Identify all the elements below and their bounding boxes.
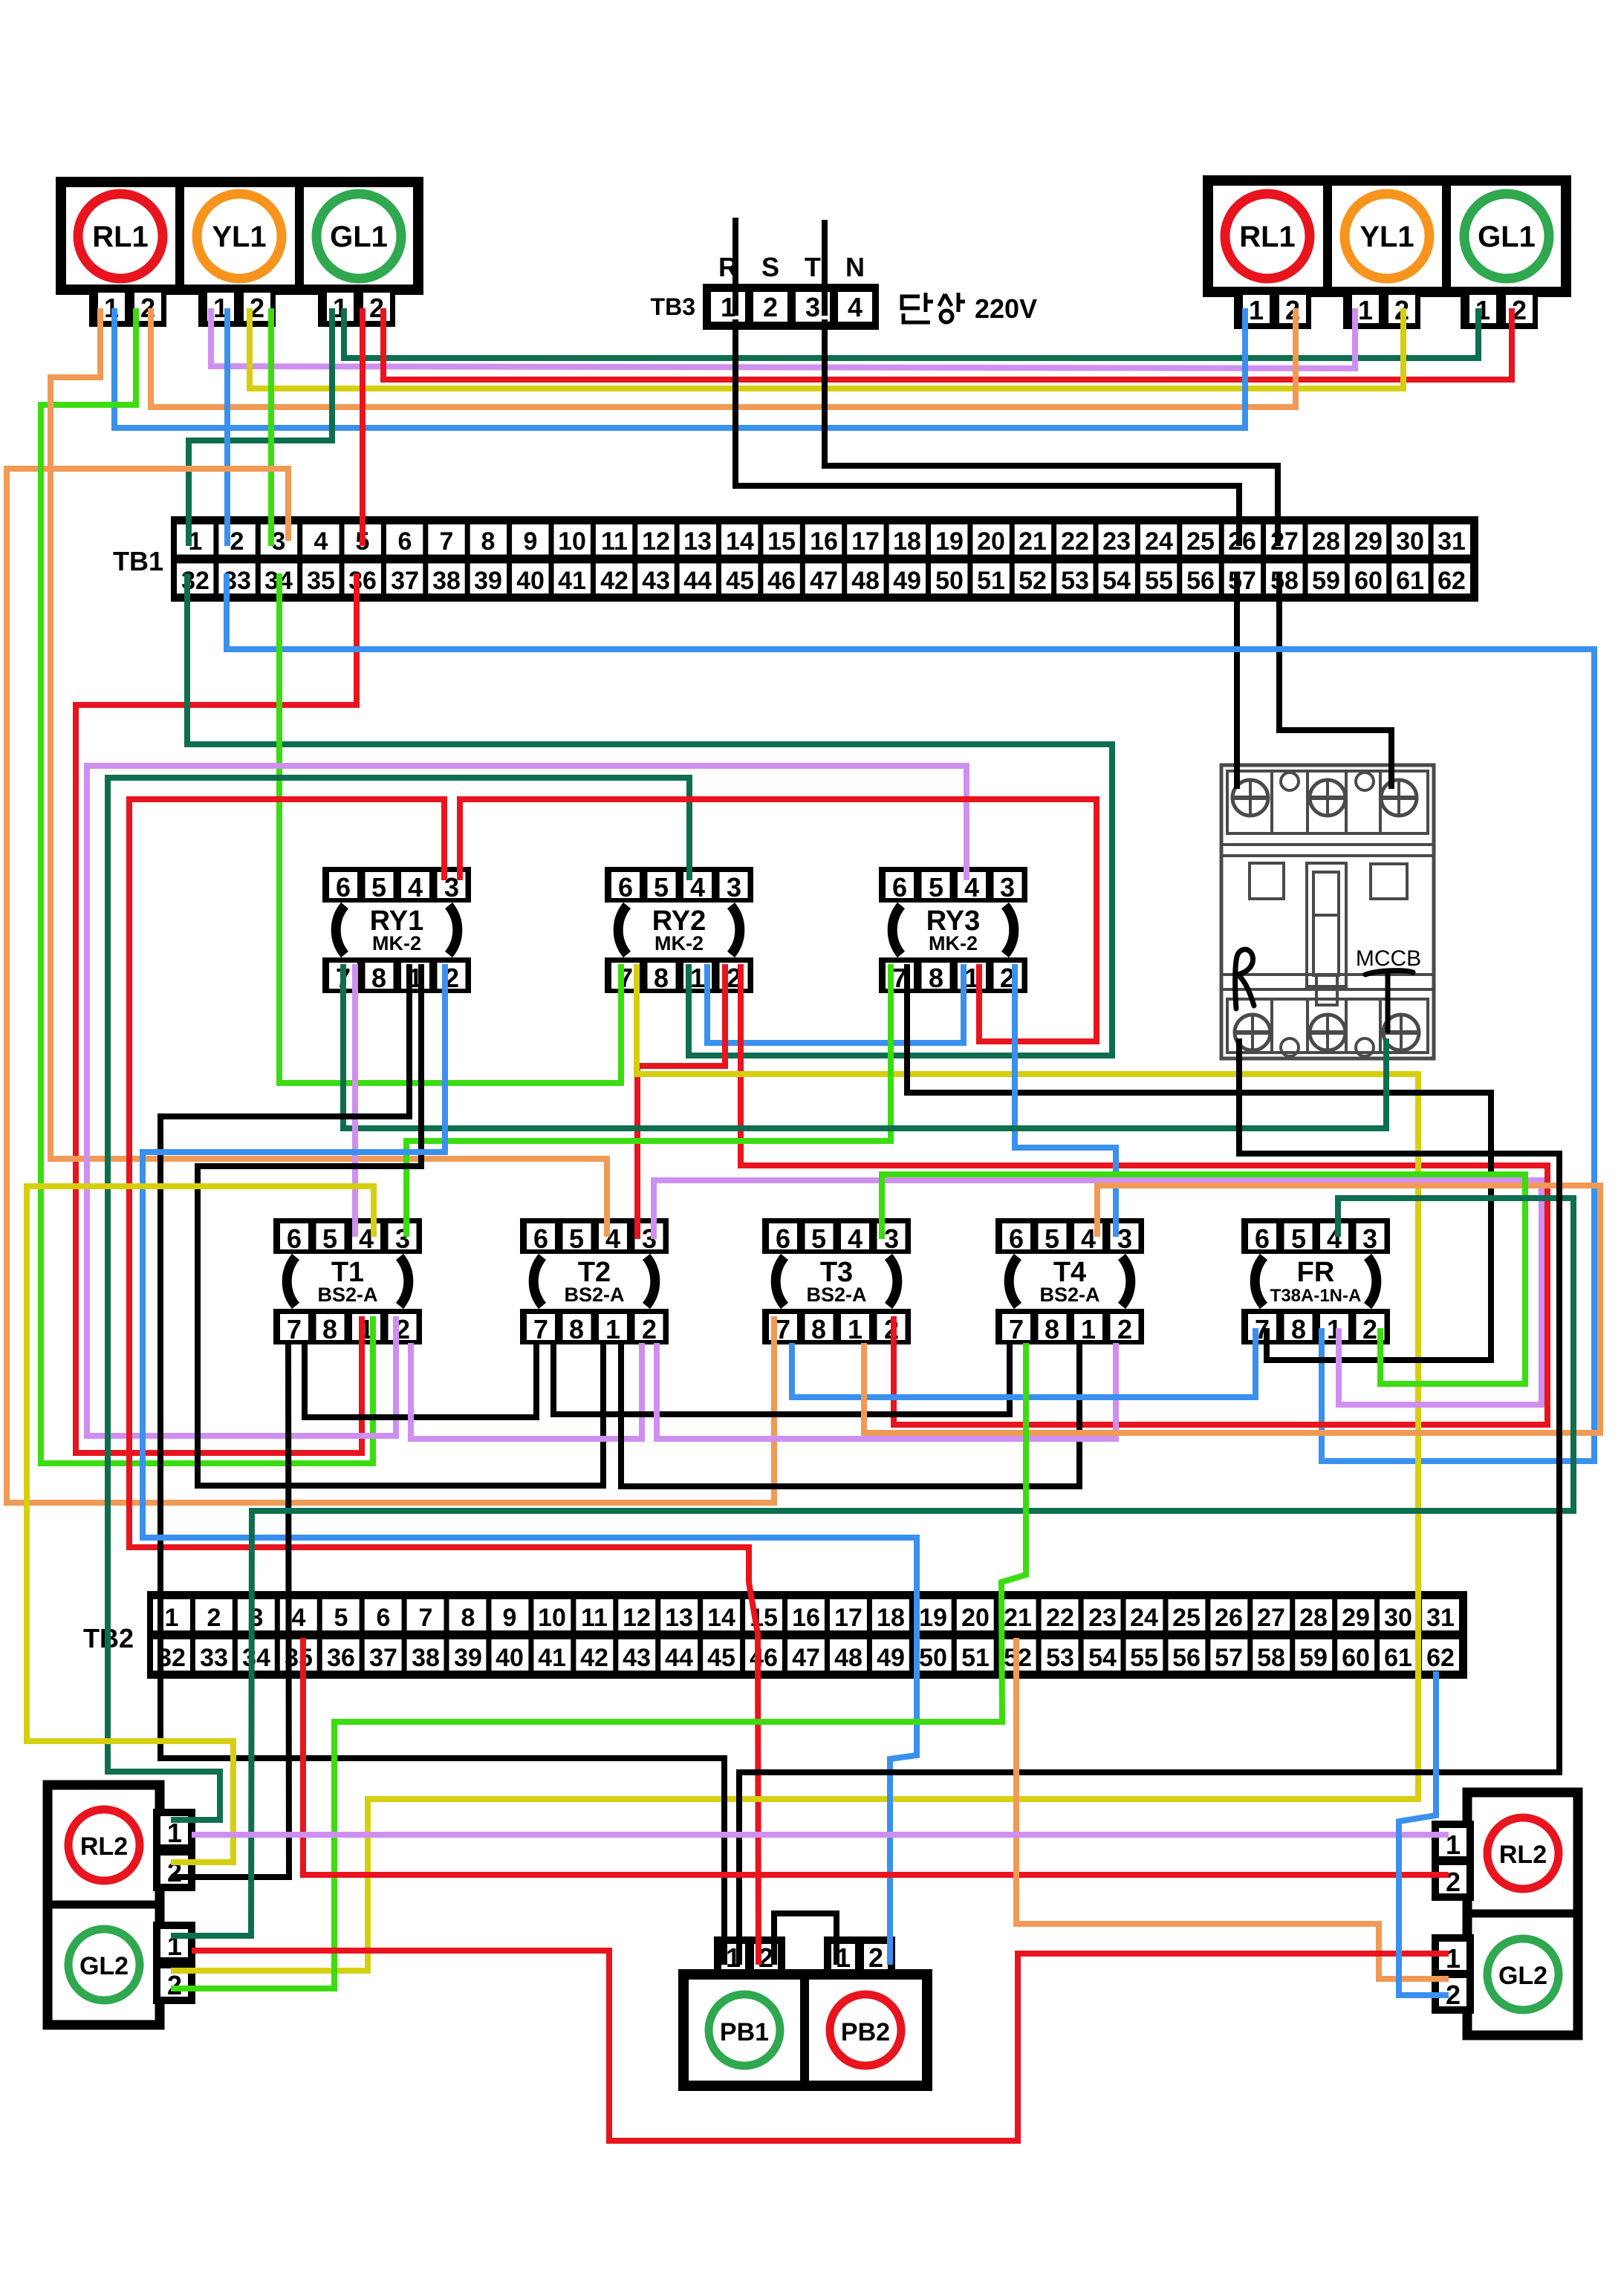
svg-text:8: 8 (461, 1604, 475, 1632)
timer T2 (BS2-A) (520, 1218, 669, 1344)
wire lime TB1.34 to RY2.7 (279, 573, 621, 1083)
svg-text:4: 4 (848, 1223, 863, 1254)
svg-text:42: 42 (580, 1644, 608, 1672)
wire black MCCB bottom to PB1.1 (739, 1038, 1559, 1965)
svg-text:T: T (805, 252, 821, 282)
svg-text:PB2: PB2 (841, 2018, 890, 2046)
wire black RY1.1 to TB2.1/32 to PB1.1 (160, 964, 724, 1965)
svg-text:45: 45 (707, 1644, 735, 1672)
svg-text:10: 10 (538, 1604, 566, 1632)
svg-text:29: 29 (1342, 1604, 1370, 1632)
svg-text:23: 23 (1088, 1604, 1117, 1632)
wire black T1.7 to T2.7 (305, 1343, 536, 1417)
svg-text:14: 14 (726, 527, 754, 556)
wire black jumper PB1.2 to PB2.1 (774, 1913, 837, 1965)
wire red RY1.3 to RY3.1 (460, 799, 1097, 1041)
svg-text:3: 3 (727, 872, 741, 903)
svg-text:19: 19 (935, 527, 964, 556)
svg-text:TB3: TB3 (651, 293, 695, 320)
timer T3 (BS2-A) (762, 1218, 911, 1344)
svg-text:8: 8 (1045, 1314, 1059, 1344)
svg-text:5: 5 (1045, 1223, 1059, 1254)
svg-text:RL2: RL2 (80, 1832, 128, 1861)
svg-text:13: 13 (683, 527, 712, 556)
svg-text:54: 54 (1088, 1644, 1117, 1672)
wire purple YL1L.1 to YL1R.1 (211, 308, 1355, 368)
svg-text:19: 19 (919, 1604, 947, 1632)
wire orange TB1.3 to T3.7 (7, 469, 774, 1503)
svg-text:8: 8 (322, 1314, 337, 1344)
svg-text:48: 48 (851, 567, 880, 595)
svg-text:9: 9 (503, 1604, 517, 1632)
svg-text:7: 7 (776, 1314, 790, 1344)
svg-text:43: 43 (623, 1644, 651, 1672)
wire orange RL1L.2 to RL1R.2 (151, 308, 1296, 407)
wire blue RL1L.1 to RL1R.1 (114, 308, 1245, 428)
timer T1 (BS2-A) (273, 1218, 422, 1344)
wire black TB1.57 to MCCB top-left (1234, 572, 1240, 789)
svg-text:56: 56 (1172, 1644, 1201, 1672)
svg-text:18: 18 (893, 527, 921, 556)
svg-text:MCCB: MCCB (1356, 946, 1421, 971)
svg-text:21: 21 (1004, 1604, 1032, 1632)
wire lime T4.7 to TB2.21/52 to GL2L.2 (171, 1343, 1026, 1988)
svg-text:62: 62 (1426, 1644, 1455, 1672)
svg-text:21: 21 (1019, 527, 1047, 556)
svg-text:55: 55 (1145, 567, 1173, 595)
svg-text:1: 1 (1358, 295, 1373, 325)
svg-text:10: 10 (558, 527, 586, 556)
svg-text:GL1: GL1 (1478, 221, 1536, 253)
svg-text:52: 52 (1019, 567, 1047, 595)
wire purple T2.3 to FR.1 (654, 1180, 1542, 1405)
svg-text:6: 6 (287, 1223, 302, 1254)
svg-text:YL1: YL1 (212, 221, 266, 253)
svg-text:8: 8 (481, 527, 496, 556)
indicator lamp block RL1/YL1/GL1 (top right) (1208, 181, 1566, 329)
svg-text:7: 7 (533, 1314, 548, 1344)
terminal block TB1 (1-62) (113, 516, 1478, 602)
svg-text:61: 61 (1396, 567, 1424, 595)
svg-text:5: 5 (371, 872, 386, 903)
svg-text:6: 6 (1009, 1223, 1024, 1254)
svg-text:45: 45 (726, 567, 754, 595)
svg-text:GL1: GL1 (330, 221, 388, 253)
wire teal RY2.4 to RL2L.1 (108, 778, 689, 1820)
svg-text:12: 12 (623, 1604, 651, 1632)
svg-text:5: 5 (1291, 1223, 1306, 1254)
relay RY2 (MK-2) (605, 867, 753, 993)
svg-text:3: 3 (1000, 872, 1015, 903)
svg-text:44: 44 (683, 567, 712, 595)
svg-text:14: 14 (707, 1604, 735, 1632)
svg-text:2: 2 (763, 292, 778, 322)
svg-text:53: 53 (1061, 567, 1089, 595)
svg-text:56: 56 (1186, 567, 1215, 595)
wire lime RY3.7 to T1.3 (406, 964, 891, 1237)
svg-text:8: 8 (569, 1314, 584, 1344)
svg-text:11: 11 (581, 1604, 608, 1632)
svg-text:59: 59 (1299, 1644, 1328, 1672)
wire teal RY1.7 to MCCB bottom (343, 964, 1386, 1128)
svg-text:50: 50 (935, 567, 964, 595)
wire blue RY3.2 to T4.3 (1015, 964, 1116, 1237)
svg-text:15: 15 (767, 527, 796, 556)
svg-text:1: 1 (1081, 1314, 1096, 1344)
timer T4 (BS2-A) (995, 1218, 1144, 1344)
svg-text:1: 1 (605, 1314, 620, 1344)
svg-text:49: 49 (893, 567, 921, 595)
svg-text:2: 2 (167, 1970, 182, 2000)
svg-text:3: 3 (805, 292, 820, 322)
label 단상 220V (902, 293, 965, 322)
wire orange T3.1 to T4.4 (864, 1186, 1600, 1433)
svg-text:2: 2 (1362, 1314, 1377, 1344)
wire blue RY1.2 to TB2.19/50 to PB2.2 (143, 964, 917, 1965)
svg-text:53: 53 (1046, 1644, 1074, 1672)
svg-text:6: 6 (398, 527, 412, 556)
svg-text:BS2-A: BS2-A (564, 1284, 624, 1306)
svg-text:6: 6 (892, 872, 907, 903)
svg-text:7: 7 (287, 1314, 302, 1344)
wire red RY2.2 to T3.2 (741, 964, 1547, 1425)
svg-text:27: 27 (1257, 1604, 1285, 1632)
wire black RY1.1 to T2.1 (198, 964, 603, 1486)
wire lime T3.3 to FR.2 (882, 1174, 1525, 1384)
svg-text:20: 20 (961, 1604, 990, 1632)
svg-text:44: 44 (665, 1644, 693, 1672)
wire yellow T1.4 to RL2L.2 (27, 1186, 374, 1862)
svg-text:5: 5 (569, 1223, 584, 1254)
svg-text:1: 1 (848, 1314, 863, 1344)
svg-text:31: 31 (1426, 1604, 1455, 1632)
svg-text:2: 2 (642, 1314, 657, 1344)
svg-text:MK-2: MK-2 (372, 932, 421, 955)
svg-text:6: 6 (336, 872, 351, 903)
wire purple T1.2 to T2.2 (411, 1343, 642, 1439)
svg-text:16: 16 (810, 527, 838, 556)
svg-text:3: 3 (1117, 1223, 1132, 1254)
svg-text:43: 43 (642, 567, 670, 595)
wire black stub above TB3.3 (822, 220, 828, 316)
wire red TB1.36 to T1.1 (76, 573, 362, 1453)
svg-text:1: 1 (1249, 295, 1264, 325)
wire red TB2.35 to RL2R.2 (303, 1638, 1449, 1875)
svg-text:7: 7 (1009, 1314, 1024, 1344)
svg-text:220V: 220V (975, 293, 1037, 324)
svg-text:1: 1 (165, 1604, 179, 1632)
svg-text:57: 57 (1215, 1644, 1243, 1672)
wire black TB3.3 to TB1.27 (825, 319, 1278, 546)
wire orange RL1L.1 to T2.4 (51, 308, 607, 1237)
svg-text:58: 58 (1257, 1644, 1285, 1672)
svg-text:50: 50 (919, 1644, 947, 1672)
wire teal FR.4 to TB2.3/34 to GL2L.1 (171, 1198, 1573, 1936)
wire purple RL2L.1 to RL2R.1 (192, 1832, 1449, 1838)
relay RY3 (MK-2) (879, 867, 1027, 993)
svg-text:GL2: GL2 (1498, 1962, 1547, 1990)
svg-text:2: 2 (868, 1942, 883, 1973)
svg-text:49: 49 (877, 1644, 905, 1672)
svg-text:2: 2 (1117, 1314, 1132, 1344)
svg-text:46: 46 (750, 1644, 778, 1672)
push buttons PB1/PB2 (683, 1940, 927, 2086)
svg-text:57: 57 (1228, 567, 1256, 595)
svg-text:BS2-A: BS2-A (1039, 1284, 1099, 1306)
svg-text:GL2: GL2 (79, 1952, 129, 1980)
svg-text:2: 2 (207, 1604, 221, 1632)
svg-text:35: 35 (307, 567, 335, 595)
svg-text:38: 38 (432, 567, 461, 595)
svg-text:RL1: RL1 (92, 221, 149, 253)
wire lime RL1L.2 to T1.1 (41, 308, 373, 1463)
handwritten T (phase mark on MCCB) (1365, 971, 1413, 1031)
wire teal GL1L.1 to GL1R.1 (344, 308, 1478, 358)
svg-text:51: 51 (977, 567, 1005, 595)
svg-text:41: 41 (558, 567, 586, 595)
svg-text:36: 36 (348, 567, 377, 595)
svg-text:59: 59 (1312, 567, 1340, 595)
svg-text:25: 25 (1172, 1604, 1201, 1632)
svg-text:9: 9 (524, 527, 538, 556)
svg-text:41: 41 (538, 1644, 566, 1672)
svg-text:4: 4 (314, 527, 328, 556)
indicator lamp block RL1/YL1/GL1 (top left) (61, 182, 418, 327)
svg-text:S: S (761, 252, 779, 282)
svg-text:20: 20 (977, 527, 1005, 556)
svg-text:28: 28 (1312, 527, 1340, 556)
svg-text:34: 34 (242, 1644, 270, 1672)
svg-text:39: 39 (454, 1644, 482, 1672)
svg-text:18: 18 (877, 1604, 905, 1632)
wire purple T2.2 to T4.2 (657, 1343, 1116, 1439)
svg-text:4: 4 (292, 1604, 306, 1632)
flicker relay FR (T38A-1N-A) (1241, 1218, 1390, 1344)
wire red GL1L.2 to GL1R.2 (383, 308, 1512, 380)
svg-text:TB1: TB1 (113, 546, 163, 576)
svg-text:60: 60 (1354, 567, 1383, 595)
svg-text:6: 6 (377, 1604, 391, 1632)
wire teal TB1.32 to RY2.1 (187, 573, 1112, 1056)
svg-text:4: 4 (408, 872, 423, 903)
svg-text:5: 5 (322, 1223, 337, 1254)
svg-text:11: 11 (601, 527, 628, 556)
wire red RY1.3 to TB2.15/46 to PB1.2 (129, 799, 758, 1965)
svg-text:60: 60 (1342, 1644, 1370, 1672)
svg-text:28: 28 (1299, 1604, 1328, 1632)
svg-text:16: 16 (792, 1604, 820, 1632)
wire red RY2.2 to T2.3 (637, 964, 725, 1239)
svg-text:54: 54 (1102, 567, 1131, 595)
svg-text:N: N (845, 252, 865, 282)
svg-text:17: 17 (834, 1604, 863, 1632)
svg-text:4: 4 (848, 292, 863, 322)
svg-text:40: 40 (496, 1644, 524, 1672)
wire black T1.7 to TB2.4/35 to RL2L.2 (171, 1343, 289, 1877)
svg-text:25: 25 (1186, 527, 1215, 556)
wire red GL2L.1 to GL2R.1 (192, 1951, 1449, 2141)
svg-text:6: 6 (533, 1223, 548, 1254)
lamp block RL2/GL2 (bottom left) (48, 1785, 192, 2025)
wire black TB3.1 to TB1.26 (735, 319, 1239, 546)
wire black stub above TB3.1 (732, 218, 738, 316)
svg-text:38: 38 (412, 1644, 440, 1672)
handwritten R (phase mark on MCCB) (1235, 949, 1254, 1009)
svg-text:42: 42 (600, 567, 628, 595)
wire teal GL1L.1 to TB1.1 (189, 308, 332, 546)
wire blue T3.7 to FR.7 (792, 1328, 1255, 1397)
svg-text:5: 5 (654, 872, 669, 903)
svg-text:4: 4 (1081, 1223, 1096, 1254)
wire black TB1.58 to MCCB top-right (1279, 572, 1391, 789)
svg-text:26: 26 (1215, 1604, 1243, 1632)
wire blue TB1.33 to FR.1 (227, 573, 1594, 1461)
svg-text:33: 33 (200, 1644, 228, 1672)
svg-text:22: 22 (1061, 527, 1089, 556)
svg-text:55: 55 (1130, 1644, 1158, 1672)
svg-text:2: 2 (1446, 1867, 1461, 1897)
svg-text:5: 5 (334, 1604, 348, 1632)
wire black T2.1 to T4.1 (621, 1343, 1079, 1486)
lamp block RL2/GL2 (bottom right) (1435, 1792, 1578, 2035)
svg-text:31: 31 (1438, 527, 1466, 556)
wire blue RY2.1 to RY3.1 (707, 964, 964, 1043)
svg-text:5: 5 (929, 872, 943, 903)
wire yellow YL1L.2 to YL1R.2 (250, 308, 1403, 388)
svg-text:RL1: RL1 (1239, 221, 1296, 253)
svg-text:MK-2: MK-2 (654, 932, 704, 955)
svg-text:3: 3 (884, 1223, 899, 1254)
svg-text:8: 8 (929, 963, 943, 993)
circuit breaker MCCB (1221, 765, 1434, 1058)
wire orange TB2.52 to GL2R.2 (1016, 1638, 1449, 1979)
svg-text:17: 17 (851, 527, 880, 556)
terminal block TB2 (1-62) (83, 1591, 1467, 1679)
wire purple RY1.7 to T1.4 (352, 964, 358, 1237)
terminal block TB3 (R S T N) (651, 252, 879, 330)
svg-text:51: 51 (961, 1644, 990, 1672)
svg-text:22: 22 (1046, 1604, 1074, 1632)
svg-text:29: 29 (1354, 527, 1383, 556)
wire blue TB2.62 to GL2R.2 (1399, 1671, 1449, 1995)
wire black RY3.7 to FR.7 (907, 964, 1491, 1360)
svg-text:40: 40 (516, 567, 545, 595)
svg-text:47: 47 (810, 567, 838, 595)
svg-text:8: 8 (811, 1314, 826, 1344)
wire blue YL1L.1 to TB1.2 (224, 308, 230, 546)
svg-text:30: 30 (1384, 1604, 1412, 1632)
wire black T2.7 to T4.7 (553, 1343, 1010, 1414)
svg-text:36: 36 (327, 1644, 355, 1672)
svg-text:BS2-A: BS2-A (317, 1284, 377, 1306)
svg-text:MK-2: MK-2 (929, 932, 978, 955)
svg-text:3: 3 (1362, 1223, 1377, 1254)
svg-text:62: 62 (1438, 567, 1466, 595)
svg-text:6: 6 (618, 872, 633, 903)
svg-text:37: 37 (391, 567, 419, 595)
svg-text:27: 27 (1270, 527, 1299, 556)
svg-text:2: 2 (230, 527, 244, 556)
svg-text:12: 12 (642, 527, 670, 556)
svg-text:8: 8 (654, 963, 669, 993)
svg-text:61: 61 (1384, 1644, 1412, 1672)
svg-text:BS2-A: BS2-A (806, 1284, 866, 1306)
svg-text:7: 7 (440, 527, 454, 556)
svg-text:37: 37 (369, 1644, 397, 1672)
svg-text:PB1: PB1 (720, 2018, 769, 2046)
svg-text:48: 48 (834, 1644, 863, 1672)
svg-text:T38A-1N-A: T38A-1N-A (1270, 1286, 1362, 1306)
svg-text:30: 30 (1396, 527, 1424, 556)
svg-text:13: 13 (665, 1604, 693, 1632)
svg-text:47: 47 (792, 1644, 820, 1672)
svg-text:46: 46 (767, 567, 796, 595)
wire purple RY3.4 to T1.2 (87, 766, 967, 1436)
svg-text:39: 39 (474, 567, 502, 595)
relay RY1 (MK-2) (322, 867, 471, 993)
svg-text:6: 6 (776, 1223, 790, 1254)
svg-text:8: 8 (1291, 1314, 1306, 1344)
svg-text:1: 1 (690, 963, 705, 993)
svg-text:1: 1 (1446, 1943, 1461, 1974)
svg-text:5: 5 (811, 1223, 826, 1254)
svg-text:7: 7 (419, 1604, 433, 1632)
svg-text:24: 24 (1130, 1604, 1158, 1632)
svg-text:YL1: YL1 (1360, 221, 1414, 253)
svg-text:FR: FR (1297, 1257, 1335, 1288)
svg-text:24: 24 (1145, 527, 1173, 556)
svg-text:58: 58 (1270, 567, 1299, 595)
wire red GL1L.2 to TB1.5 (360, 308, 366, 546)
svg-text:6: 6 (1255, 1223, 1270, 1254)
svg-text:23: 23 (1102, 527, 1131, 556)
wire yellow RY2.7 to TB2.31/62 to GL2L.2 (171, 964, 1418, 1971)
wire lime YL1L.2 to TB1.3 (268, 308, 274, 546)
svg-text:RL2: RL2 (1499, 1841, 1547, 1869)
svg-text:8: 8 (371, 963, 386, 993)
